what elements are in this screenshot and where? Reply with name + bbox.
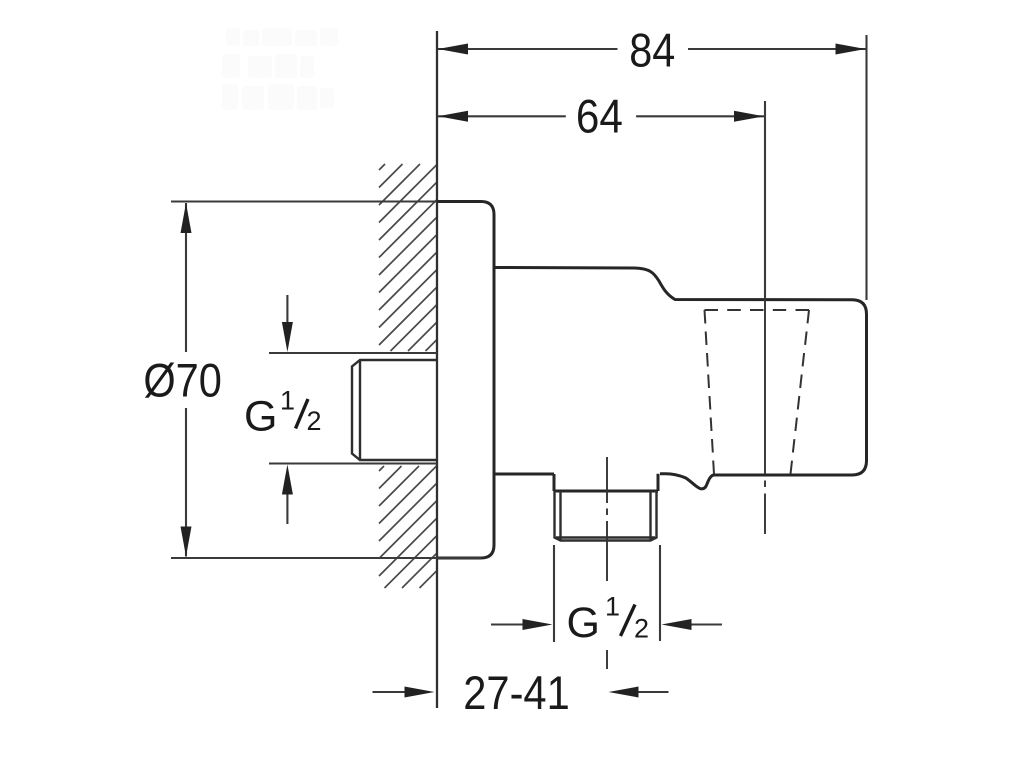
body neck bottom edge <box>494 473 554 476</box>
outlet axis centerline <box>606 457 608 669</box>
outlet G1/2: left extension line <box>553 545 555 642</box>
svg-text:84: 84 <box>629 24 675 77</box>
dimension O70: bottom extension line <box>171 557 481 559</box>
inlet thread G1/2 (left, through wall) <box>352 360 437 460</box>
svg-text:2: 2 <box>634 614 649 644</box>
outlet G1/2: right extension line <box>659 545 661 641</box>
wall section hatching (upper band) <box>379 164 437 351</box>
faint watermark blobs top-left <box>222 28 338 110</box>
svg-text:1: 1 <box>605 592 620 622</box>
svg-text:1: 1 <box>280 386 295 416</box>
dimension 84: dimension line + arrows <box>438 48 618 50</box>
svg-text:27-41: 27-41 <box>463 666 570 719</box>
hidden holder cone: left side (dashed) <box>705 310 715 474</box>
svg-text:2: 2 <box>307 406 322 436</box>
svg-text:64: 64 <box>576 90 623 143</box>
escutcheon wall plate (O70) <box>437 202 494 559</box>
hidden holder cone: top opening (dashed) <box>705 309 810 311</box>
dimension O70: dimension line + arrows <box>185 203 187 352</box>
wall hole bottom edge + lower G1/2 extension line <box>269 462 437 464</box>
svg-text:G: G <box>244 393 277 441</box>
outlet G1/2: left arrow <box>491 623 524 625</box>
outlet thread G1/2 (bottom) <box>555 491 657 541</box>
dimension 64: dimension line + arrows <box>438 115 566 117</box>
outlet boss <box>554 474 658 491</box>
holder cone axis centerline + 64 extension <box>764 101 766 299</box>
inlet G1/2: lower arrow <box>286 494 288 524</box>
svg-text:G: G <box>567 599 600 647</box>
wall face line / extension line for 84,64,27-41 dims <box>436 31 438 708</box>
dimension O70: top extension line <box>171 200 437 202</box>
svg-text:Ø70: Ø70 <box>143 353 222 406</box>
inlet G1/2: upper arrow <box>286 295 288 325</box>
dimension 27-41: right arrow <box>639 691 669 693</box>
dimension 27-41: left arrow <box>373 691 406 693</box>
wall hole top edge + upper G1/2 extension line <box>269 352 437 354</box>
hidden holder cone: right side (dashed) <box>791 310 810 474</box>
outlet G1/2: right arrow <box>691 623 722 625</box>
main body outline <box>494 268 867 489</box>
dimension 84: extension line right <box>865 35 867 300</box>
wall section hatching (lower band) <box>379 466 437 588</box>
